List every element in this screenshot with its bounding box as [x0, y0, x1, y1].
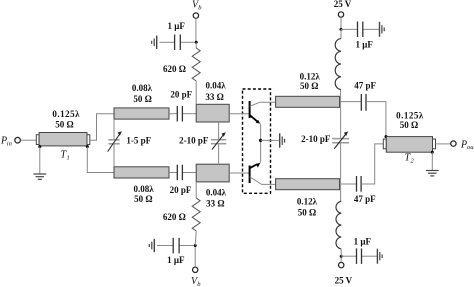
svg-text:47 pF: 47 pF	[354, 194, 376, 204]
node Pout terminal	[451, 139, 474, 151]
svg-text:620 Ω: 620 Ω	[163, 212, 186, 222]
svg-text:1 μF: 1 μF	[356, 40, 374, 50]
capacitor variable 2-10 pF output	[301, 131, 349, 148]
svg-text:25 V: 25 V	[335, 276, 353, 286]
svg-text:50 Ω: 50 Ω	[134, 194, 152, 204]
node Vb bottom junction	[194, 244, 197, 247]
wire bottom 47pF	[341, 183, 357, 185]
wire right rail vertical	[340, 90, 342, 139]
wire emitter to ground	[261, 139, 280, 141]
svg-text:0.08λ: 0.08λ	[134, 184, 155, 194]
ground emitter	[280, 133, 285, 147]
inductor bottom RFC	[336, 201, 341, 249]
transmission line bottom 0.08 lambda 50 ohm	[114, 167, 169, 204]
transistor Q2 bottom	[250, 163, 276, 185]
svg-text:47 pF: 47 pF	[354, 80, 376, 90]
transmission line T2 0.125 lambda 50 ohm	[383, 111, 435, 165]
ground top right cap	[380, 22, 385, 37]
svg-text:620 Ω: 620 Ω	[163, 64, 186, 74]
svg-text:50 Ω: 50 Ω	[298, 208, 316, 218]
capacitor 1uF bottom left	[157, 238, 194, 265]
capacitor variable 2-10 pF input	[179, 132, 226, 149]
resistor 620 ohm top	[163, 42, 200, 104]
ground bottom left cap	[149, 239, 154, 252]
transmission line bottom 0.12 lambda 50 ohm	[276, 179, 340, 218]
wire 2-10pF input lower stem	[218, 144, 220, 165]
wire Pin to T1	[21, 139, 37, 141]
svg-text:25 V: 25 V	[334, 0, 352, 9]
node 25V bottom terminal	[335, 262, 353, 285]
wire bottom base	[229, 172, 249, 174]
node T2 top left junction	[385, 135, 388, 138]
node Vb top terminal	[192, 0, 202, 18]
wire 25V top down	[340, 17, 342, 29]
svg-text:1 μF: 1 μF	[168, 21, 186, 31]
wire 25V junction to coil	[340, 29, 342, 38]
svg-text:20 pF: 20 pF	[170, 89, 192, 99]
wire bottom 47pF to T2	[361, 144, 383, 184]
node T2 bottom right junction	[431, 151, 434, 154]
node 25V top terminal	[334, 0, 352, 17]
wire T1 right to split node	[90, 114, 114, 141]
svg-text:in: in	[7, 141, 12, 148]
node T1 left bottom junction	[38, 145, 41, 148]
svg-text:2-10 pF: 2-10 pF	[301, 134, 331, 144]
wire top 47pF	[341, 101, 362, 103]
wire Vb top down	[195, 18, 197, 42]
svg-text:33 Ω: 33 Ω	[205, 92, 223, 102]
wire bottom branch from T1	[87, 147, 114, 173]
capacitor 1uF top right	[341, 22, 379, 50]
svg-text:0.04λ: 0.04λ	[206, 187, 227, 197]
node T1 bottom right junction	[86, 145, 89, 148]
capacitor 1uF bottom right	[341, 237, 377, 264]
svg-text:0.125λ: 0.125λ	[396, 111, 424, 121]
wire 1-5pF upper stem	[113, 119, 115, 140]
node 25V top junction	[340, 28, 343, 31]
wire 25V bottom up	[340, 256, 342, 262]
svg-text:20 pF: 20 pF	[170, 185, 192, 195]
node Vb bottom terminal	[191, 267, 201, 287]
svg-text:50 Ω: 50 Ω	[300, 81, 318, 91]
capacitor 47 pF top	[354, 80, 376, 110]
capacitor 47 pF bottom	[354, 176, 376, 204]
wire top base	[229, 113, 249, 115]
capacitor variable 1-5 pF	[108, 131, 152, 151]
node 25V bottom junction	[340, 255, 343, 258]
transmission line top 0.08 lambda 50 ohm	[114, 83, 169, 119]
ground bottom right cap	[377, 249, 382, 264]
wire T1 to ground	[39, 147, 41, 174]
node Vb top junction	[195, 41, 198, 44]
svg-text:0.08λ: 0.08λ	[132, 83, 153, 93]
ground top left cap	[152, 36, 157, 49]
wire 2-10pF input upper stem	[218, 122, 220, 140]
svg-text:1 μF: 1 μF	[354, 237, 372, 247]
wire top 47pF to T2	[366, 102, 386, 137]
svg-text:50 Ω: 50 Ω	[400, 120, 418, 130]
transistor Q1 top	[250, 101, 276, 163]
svg-text:50 Ω: 50 Ω	[55, 120, 73, 130]
svg-text:1 μF: 1 μF	[167, 255, 185, 265]
inductor top RFC	[335, 39, 341, 90]
ground T1	[33, 174, 46, 179]
svg-text:2-10 pF: 2-10 pF	[179, 136, 209, 146]
transmission line top 0.04 lambda 33 ohm	[196, 81, 229, 122]
svg-text:0.125λ: 0.125λ	[52, 109, 80, 119]
svg-text:1-5 pF: 1-5 pF	[126, 136, 151, 146]
svg-text:1: 1	[67, 155, 70, 162]
capacitor 20 pF bottom	[169, 165, 196, 195]
wire 1-5pF lower stem	[113, 144, 115, 167]
transmission line bottom 0.04 lambda 33 ohm	[196, 164, 229, 208]
svg-text:0.04λ: 0.04λ	[206, 81, 227, 91]
svg-text:out: out	[467, 144, 474, 151]
svg-text:0.12λ: 0.12λ	[297, 197, 318, 207]
wire T2 to ground	[431, 152, 433, 170]
ground T2	[426, 171, 439, 176]
transmission line T1 0.125 lambda 50 ohm	[36, 109, 90, 162]
transmission line top 0.12 lambda 50 ohm	[276, 71, 340, 107]
wire Vb bottom up	[194, 246, 196, 268]
wire T2 to Pout	[436, 143, 451, 145]
transistor pair dashed package box	[243, 89, 271, 193]
svg-text:50 Ω: 50 Ω	[133, 94, 151, 104]
node common emitter junction	[259, 139, 262, 142]
capacitor 20 pF top	[169, 89, 196, 121]
node Pin terminal	[0, 136, 20, 148]
capacitor 1uF top left	[160, 21, 195, 50]
svg-text:0.12λ: 0.12λ	[300, 71, 321, 81]
resistor 620 ohm bottom	[163, 182, 200, 246]
svg-text:33 Ω: 33 Ω	[206, 199, 224, 209]
